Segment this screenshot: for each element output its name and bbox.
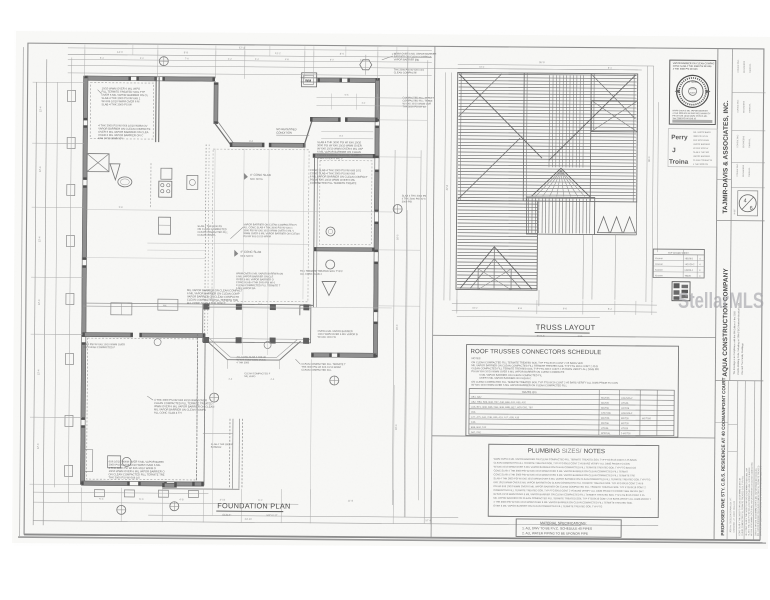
bath wing left wall [313,157,314,307]
bath wing fixtures [326,227,335,236]
sheet number 4/6 [738,191,758,216]
bath wing step corner [300,304,313,306]
mid-plan dim lines [147,243,309,244]
title block right sub-boxes [732,92,765,94]
bottom-left room top wall [83,333,133,337]
seal circle [676,75,708,107]
engineer name block [668,129,717,167]
upper right dim lines [317,96,427,99]
vertical panel divider [431,46,435,537]
top dimension lines [68,54,432,57]
entry bay bottom wall [230,143,264,147]
truss hanging verticals to dims [582,234,585,299]
title block: company name section [731,49,732,221]
foundation plan: bottom-left exterior wall [81,481,129,486]
extra top dim rows and ticks [68,48,432,51]
wall of bottom-right wing [311,353,331,357]
covered entry porch with columns [203,304,311,343]
left wing gable triangle [460,247,532,290]
truss vertical band middle [548,75,551,167]
interior extension lines [212,149,215,516]
bottom edge double line [18,537,766,543]
left wing inner box [478,269,511,290]
truss dimension lines left [444,72,446,300]
bottom-left bath fixtures [108,456,121,468]
mini legend box [672,282,690,301]
dashed slab edge: great room [212,149,309,302]
truss right-bottom small triangles [597,217,609,233]
truss top dims [458,64,654,66]
dim circle below walk [210,393,219,402]
left dimension lines [33,82,36,525]
truss center fan/gable [532,168,590,196]
entry walk splayed edges [206,341,227,360]
WM meter box [302,73,317,87]
dashed slab edge: bath wing [319,160,372,244]
bath fixtures left wall [87,154,109,172]
hallway wall with closets y305 [83,302,203,305]
title block left border [714,49,718,540]
bath wing divider wall y250 [314,247,374,251]
truss bottom dims [452,303,657,305]
schedule table [469,389,674,436]
plumbing sizes notes box [488,444,659,517]
material specifications box [516,519,621,537]
column marker boxes along left dim line [67,90,75,101]
truss hip diagonals [458,74,543,159]
sink oval [118,177,132,187]
porch dim circles [154,339,161,346]
left edge second line [20,47,24,536]
bottom dim circles [117,505,126,514]
interior vertical ext lines [242,149,244,355]
kitchen lower appliance [158,217,170,234]
interior wall between rooms top-left [155,77,158,142]
kitchen fixtures [159,181,172,197]
roof trusses connectors schedule box [466,345,679,438]
truss left wing horizontal trusses [458,202,538,205]
dashed slab edge: top-left room [90,83,153,139]
foundation plan: right exterior wall [375,78,380,121]
dashed slab edge: bottom-left room [87,338,198,480]
truss area border [457,72,638,201]
left dim ticks [33,81,85,83]
dim circle top-left [159,57,168,66]
horizontal divider below truss layout [433,335,716,337]
foundation plan: top exterior wall [85,76,131,81]
title block: project section [727,381,728,540]
bottom dimension lines [33,492,208,493]
bottom-left room right wall [196,333,197,485]
foundation plan: left exterior wall [83,76,88,120]
toilet cone [110,164,120,180]
truss center-bottom vertical trusses [527,198,529,233]
bottom-center porch walls [228,419,231,489]
truss hardware mini table [653,249,704,278]
entry bay diagonal right [304,121,312,145]
truss dimension lines right [646,66,648,302]
engineer seal box [669,60,716,124]
svg-text:StellarMLS: StellarMLS [678,288,764,313]
truss top-right notch box [591,101,637,132]
title block: aqua construction section [715,380,763,382]
interior horizontal dim line y212 [87,210,393,212]
entry bay left wall [214,83,218,124]
upper-right room wall y157 [313,154,375,158]
horizontal divider below schedule [432,436,715,438]
truss interior bearing walls [523,73,524,201]
truss layout: main roof area horizontal trusses [459,74,637,75]
upper-right room wall y120 [310,117,340,121]
hexagon symbol top [360,60,372,70]
column marker boxes along bottom [94,490,104,497]
right-side dimension lines [392,150,395,505]
middle vertical wall (kitchen edge, dotted) [205,145,206,334]
entry bay diagonal left [214,123,231,145]
outer page border [24,43,764,540]
